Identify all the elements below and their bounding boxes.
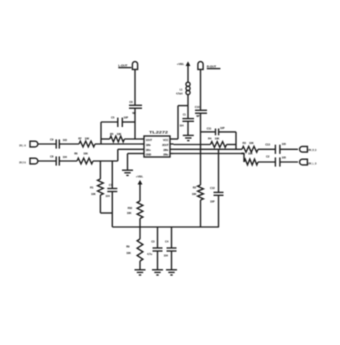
svg-text:2OUT: 2OUT [162, 143, 169, 147]
svg-text:R2: R2 [193, 185, 197, 189]
svg-text:SPK_R_IN: SPK_R_IN [19, 160, 25, 164]
svg-text:C13: C13 [265, 142, 270, 146]
svg-text:4.7u: 4.7u [147, 252, 152, 256]
svg-text:10K: 10K [126, 251, 131, 255]
svg-text:R-OUT: R-OUT [207, 64, 217, 68]
svg-text:15P: 15P [210, 200, 215, 204]
svg-text:105: 105 [282, 156, 287, 160]
svg-text:C6: C6 [129, 100, 133, 104]
svg-text:10P: 10P [220, 126, 225, 130]
svg-text:L-OUT: L-OUT [118, 63, 127, 67]
svg-text:10K: 10K [127, 211, 132, 215]
svg-text:1IN+: 1IN+ [146, 148, 152, 152]
svg-text:2IN-: 2IN- [163, 148, 168, 152]
svg-text:10K: 10K [192, 192, 197, 196]
svg-text:104: 104 [164, 253, 169, 257]
svg-text:NP: NP [132, 111, 136, 115]
svg-text:1IN-: 1IN- [146, 143, 151, 147]
svg-text:10K: 10K [215, 136, 220, 140]
svg-text:+VBL: +VBL [177, 62, 185, 66]
svg-text:SPK_R_O: SPK_R_O [308, 148, 317, 152]
svg-text:C12: C12 [210, 186, 215, 190]
svg-text:NP: NP [196, 114, 200, 118]
svg-text:10P: 10P [124, 116, 129, 120]
svg-text:10K: 10K [85, 136, 90, 140]
svg-text:2IN+: 2IN+ [163, 152, 169, 156]
svg-text:C10: C10 [195, 105, 200, 109]
svg-text:SPK_L_O: SPK_L_O [308, 162, 317, 166]
svg-text:10K: 10K [83, 152, 88, 156]
svg-text:+VBL: +VBL [136, 174, 144, 178]
svg-text:10K: 10K [91, 192, 96, 196]
svg-text:GND: GND [146, 152, 151, 156]
svg-text:SPK_L_IN: SPK_L_IN [19, 143, 25, 147]
svg-text:1OUT: 1OUT [146, 138, 153, 142]
svg-text:TL2272: TL2272 [149, 131, 168, 135]
svg-text:103: 103 [63, 138, 68, 142]
svg-text:C11: C11 [207, 126, 212, 130]
svg-text:10K: 10K [248, 152, 253, 156]
svg-text:10K: 10K [249, 141, 254, 145]
svg-text:4.7uH: 4.7uH [176, 92, 183, 96]
svg-text:105: 105 [282, 142, 287, 146]
svg-text:104: 104 [63, 155, 68, 159]
svg-text:104: 104 [105, 194, 110, 198]
svg-text:10K: 10K [117, 132, 122, 136]
svg-text:R10: R10 [128, 206, 133, 210]
svg-text:C7: C7 [109, 183, 113, 187]
